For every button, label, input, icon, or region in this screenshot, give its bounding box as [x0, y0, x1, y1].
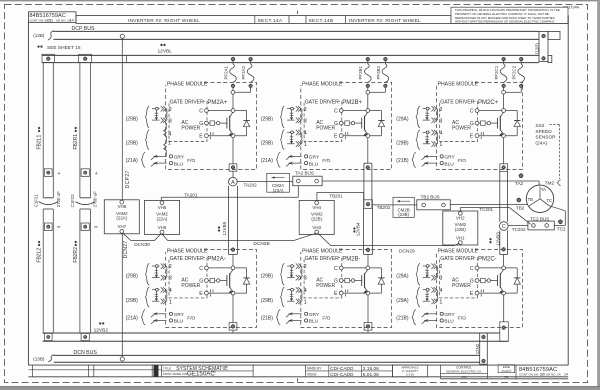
svg-text:GATE DRIVER: GATE DRIVER	[440, 256, 474, 262]
svg-text:12N2: 12N2	[475, 343, 480, 354]
svg-text:SS2: SS2	[535, 123, 544, 129]
svg-text:+: +	[95, 171, 98, 177]
svg-text:G: G	[334, 279, 338, 285]
wire PM2C- emitter down	[503, 295, 505, 322]
emitter rail PM2A+	[208, 135, 246, 137]
svg-text:VH8: VH8	[118, 204, 127, 209]
wire 12VB5 to PM2A- collector	[232, 255, 234, 267]
svg-text:CONT ON SH. 15: CONT ON SH. 15	[519, 372, 543, 376]
diode PM2A+	[246, 111, 248, 136]
svg-text:TA2: TA2	[515, 181, 524, 186]
svg-text:F/O: F/O	[322, 158, 330, 164]
svg-text:PM2A+: PM2A+	[207, 100, 227, 106]
svg-text:(29B): (29B)	[261, 274, 274, 280]
bolt box TB202	[364, 200, 373, 209]
wire TA201 to VAM2	[297, 186, 299, 198]
diode PM2C-	[516, 268, 518, 293]
ticks on emitter return PM2C+	[480, 132, 482, 135]
svg-text:INVERTER #2: RIGHT WHEEL: INVERTER #2: RIGHT WHEEL	[349, 18, 421, 24]
svg-text:(29A): (29A)	[396, 274, 409, 280]
svg-text:DCN2B: DCN2B	[253, 241, 269, 247]
bolt 12VB5	[231, 248, 235, 252]
wire TC201 from VAM2 to TC2 bus	[459, 208, 461, 211]
top gray scan bar	[0, 0, 600, 1]
connector pins 4 1 PM2B-	[287, 289, 295, 291]
svg-text:MADE BY: MADE BY	[307, 367, 322, 371]
gate driver box PM2C-	[440, 258, 478, 298]
bar 12N2	[480, 333, 488, 364]
fiber optic GRY PM2B-	[289, 313, 302, 315]
svg-text:(22A): (22A)	[157, 216, 168, 221]
current transducer CM2B (23B)	[393, 204, 417, 206]
svg-text:BLU: BLU	[444, 161, 454, 167]
svg-text:PF2C2: PF2C2	[512, 65, 517, 79]
svg-text:PF2B2: PF2B2	[376, 66, 381, 80]
svg-text:3: 3	[304, 276, 307, 282]
diode PM2A-	[246, 268, 248, 293]
svg-text:E: E	[470, 134, 474, 140]
svg-text:POWER: POWER	[316, 126, 335, 132]
capacitor C1F21 2700 uF	[43, 197, 53, 199]
svg-text:12VB3: 12VB3	[495, 232, 500, 246]
wire joining PF2A1 PF2A2	[232, 88, 234, 91]
bar phase B output	[363, 163, 365, 208]
collector rail PM2B+	[343, 110, 381, 112]
connector pins 4 1 PM2A+	[166, 109, 168, 121]
DCN bus	[54, 354, 480, 356]
svg-text:(29B): (29B)	[261, 298, 274, 304]
bolt box output PM2A-	[229, 323, 237, 331]
voltage module VAM2 (22A) VH6/VH5	[145, 200, 180, 234]
svg-text:4: 4	[439, 131, 442, 137]
svg-text:(21A): (21A)	[126, 158, 139, 164]
svg-text:PHASE MODULE: PHASE MODULE	[167, 249, 208, 255]
svg-text:VH4: VH4	[312, 205, 321, 210]
svg-text:VH2: VH2	[456, 215, 465, 220]
collector rail PM2B-	[343, 267, 381, 269]
title block outline	[28, 364, 568, 366]
svg-text:POWER: POWER	[452, 126, 471, 132]
bolt 12VB4	[366, 248, 370, 252]
collector rail PM2C+	[479, 110, 517, 112]
svg-text:VH3: VH3	[312, 225, 321, 230]
fiber optic GRY PM2A+	[154, 155, 167, 157]
svg-text:TB: TB	[528, 197, 534, 202]
svg-text:F/O: F/O	[458, 158, 466, 164]
emitter rail PM2A-	[208, 292, 246, 294]
svg-text:E: E	[334, 291, 338, 297]
motor TM2	[526, 185, 553, 212]
svg-text:+: +	[58, 171, 61, 177]
svg-text:DCP27: DCP27	[125, 170, 131, 188]
svg-text:F/O: F/O	[322, 316, 330, 322]
bolt box output PM2B-	[364, 323, 372, 331]
wire TA202 to CM2A	[237, 180, 267, 182]
svg-text:TM2: TM2	[545, 180, 555, 186]
fuse PF2A2	[249, 57, 253, 61]
node on DCN bus	[120, 357, 124, 361]
svg-text:C1F22: C1F22	[70, 194, 75, 208]
wire to ammeter TA202	[232, 171, 234, 177]
svg-text:FIRST MADE FOR: FIRST MADE FOR	[163, 372, 189, 376]
svg-text:GENERAL ELECTRIC CO.: GENERAL ELECTRIC CO.	[446, 370, 482, 374]
svg-text:C: C	[470, 109, 474, 115]
svg-text:F/O: F/O	[458, 316, 466, 322]
fiber optic BLU PM2A+	[154, 162, 167, 164]
node junction below fuses PF2B1	[366, 90, 370, 94]
wire phase C emitter down	[503, 138, 505, 164]
svg-text:TITLE: TITLE	[163, 367, 171, 371]
connector pins 4 1 PM2C-	[423, 289, 431, 291]
fold tick bottom center	[297, 378, 299, 381]
svg-text:SPEED: SPEED	[535, 129, 552, 135]
12VBL rail stub right of 12P bar	[548, 55, 552, 62]
bar phase C down to current sensor	[499, 171, 501, 221]
svg-text:DCN BUS: DCN BUS	[74, 350, 98, 356]
transistor IGBT PM2C+	[497, 118, 499, 129]
phase module PM2C- outline	[436, 250, 522, 328]
fiber optic GRY PM2B+	[289, 155, 302, 157]
svg-text:(23B): (23B)	[398, 212, 409, 217]
svg-text:1: 1	[304, 142, 307, 148]
phase module PM2C+ outline	[436, 82, 522, 169]
svg-text:PE: PE	[504, 375, 508, 379]
svg-text:15: 15	[541, 373, 545, 377]
svg-text:2.15.06: 2.15.06	[363, 366, 379, 372]
transistor IGBT PM2B+	[361, 118, 363, 129]
svg-text:GRY: GRY	[444, 312, 455, 318]
svg-text:PM2C+: PM2C+	[478, 100, 499, 106]
header strip	[76, 16, 568, 24]
fuse PF2B1	[366, 57, 370, 61]
svg-text:POWER: POWER	[181, 283, 200, 289]
bolt box top of FB2R1	[79, 54, 92, 62]
bolt output PM2B+	[366, 165, 370, 169]
svg-text:(22B): (22B)	[455, 227, 466, 232]
bus bar TA2 BUS	[293, 176, 322, 186]
voltage module VAM2 (22B) VH2/VH1	[443, 211, 478, 245]
current transducer CM2A (23A)	[267, 180, 293, 182]
emitter rail PM2C-	[479, 292, 517, 294]
svg-text:(21A): (21A)	[261, 158, 274, 164]
svg-text:VH5: VH5	[158, 225, 167, 230]
bus bar TC2 BUS	[528, 221, 554, 230]
svg-text:GE150AC: GE150AC	[187, 371, 215, 378]
svg-text:CGI: CGI	[461, 375, 467, 379]
svg-text:E: E	[334, 134, 338, 140]
svg-text:2: 2	[304, 264, 307, 270]
svg-text:GRY: GRY	[174, 312, 185, 318]
fiber optic GRY PM2C-	[424, 313, 437, 315]
diode PM2C+	[516, 111, 518, 136]
svg-text:E: E	[199, 134, 203, 140]
svg-text:ISSUE: ISSUE	[307, 372, 317, 376]
right frame line	[567, 16, 569, 366]
svg-text:PHASE MODULE: PHASE MODULE	[438, 82, 479, 88]
bar 12VB4 phase B	[363, 209, 365, 255]
emitter rail PM2C+	[479, 135, 517, 137]
label SEE SHEET 15	[37, 46, 39, 48]
fuse PF2B2	[383, 57, 387, 61]
svg-text:(2): (2)	[225, 365, 228, 369]
svg-text:VH1: VH1	[456, 235, 465, 240]
svg-text:2: 2	[169, 107, 172, 113]
svg-text:5.01.06: 5.01.06	[363, 372, 379, 378]
bolt box mid of FB2L2 with - polarity	[44, 223, 52, 231]
svg-text:G: G	[470, 279, 474, 285]
collector rail PM2A+	[208, 110, 246, 112]
DCN negative rail	[43, 332, 500, 334]
svg-text:G: G	[470, 121, 474, 127]
svg-text:5.3.06: 5.3.06	[406, 373, 414, 377]
svg-text:BLU: BLU	[444, 319, 454, 325]
svg-text:DCN27: DCN27	[123, 240, 129, 258]
fuse PF2C2	[519, 57, 523, 61]
svg-text:GATE DRIVER: GATE DRIVER	[305, 99, 339, 105]
fold tick top center	[297, 11, 299, 14]
wire joining PF2C1 PF2C2	[503, 88, 505, 91]
svg-text:3: 3	[304, 118, 307, 124]
svg-text:PHASE MODULE: PHASE MODULE	[302, 82, 343, 88]
node on DCP bus	[120, 34, 124, 38]
connector pins 4 1 PM2B+	[287, 131, 295, 133]
bolt box top of FB2L1	[42, 54, 55, 62]
DCP bus	[54, 30, 540, 32]
transistor IGBT PM2B-	[361, 275, 363, 286]
svg-text:1: 1	[168, 141, 171, 147]
control cell GENERAL ELECTRIC CO	[440, 365, 442, 379]
wire PM2A- emitter down	[232, 295, 234, 323]
svg-text:C: C	[470, 266, 474, 272]
title box 84B516759AC top-left	[28, 12, 76, 23]
svg-text:PF2C1: PF2C1	[494, 65, 499, 79]
svg-text:SEE SHEET 15: SEE SHEET 15	[47, 45, 81, 51]
svg-text:1: 1	[169, 299, 172, 305]
svg-text:(23A): (23A)	[273, 188, 284, 193]
svg-text:(21B): (21B)	[396, 158, 409, 164]
svg-text:14: 14	[564, 373, 568, 377]
ammeter TA202	[229, 177, 238, 186]
svg-text:SENSOR: SENSOR	[535, 135, 556, 141]
svg-text:2: 2	[439, 264, 442, 270]
svg-text:PM2C-: PM2C-	[478, 257, 497, 263]
svg-text:(13B): (13B)	[33, 33, 45, 38]
svg-text:TB201: TB201	[329, 193, 343, 198]
label 12VB2	[99, 322, 101, 324]
svg-text:4: 4	[304, 131, 307, 137]
svg-text:(29B): (29B)	[261, 116, 274, 122]
svg-text:PLANT: PLANT	[502, 369, 512, 373]
collector rail PM2C-	[479, 267, 517, 269]
svg-text:(29B): (29B)	[126, 298, 139, 304]
svg-text:(29A): (29A)	[396, 298, 409, 304]
capacitor C1F22 2700 uF	[80, 197, 91, 199]
gate driver box PM2B+	[304, 101, 342, 141]
bolt 12VB3	[502, 247, 506, 251]
svg-text:3: 3	[439, 276, 442, 282]
gate driver box PM2A+	[169, 101, 207, 141]
bolt box output PM2C+	[500, 164, 508, 172]
wire DCP27 vertical	[121, 38, 123, 200]
svg-text:C: C	[502, 224, 506, 230]
transistor IGBT PM2C-	[497, 275, 499, 286]
svg-text:(29A): (29A)	[396, 116, 409, 122]
gate resistor PM2C-	[479, 280, 481, 282]
bolt TB2	[517, 198, 522, 203]
wire TC2 bus to TC2 bolt	[554, 224, 565, 226]
svg-text:TB2 BUS: TB2 BUS	[421, 194, 440, 199]
fiber optic BLU PM2B+	[289, 162, 302, 164]
svg-text:12VB2: 12VB2	[94, 327, 109, 333]
svg-text:GRY: GRY	[309, 155, 320, 161]
svg-text:BLU: BLU	[174, 319, 184, 325]
svg-text:GATE DRIVER: GATE DRIVER	[170, 99, 204, 105]
gate resistor PM2A+	[208, 122, 210, 124]
wire 12VB4 to PM2B- collector	[367, 255, 369, 267]
bolt box output PM2A+	[229, 164, 237, 171]
speed sensor pointer dashed	[550, 124, 560, 126]
svg-text:A: A	[231, 180, 235, 186]
wire TB202 to CM2B	[372, 204, 393, 206]
bolt box mid of FB2L1 with + polarity	[44, 169, 52, 177]
svg-text:PM2B-: PM2B-	[342, 257, 360, 263]
svg-text:C1F21: C1F21	[34, 194, 39, 208]
title cell SYSTEM SCHEMATIC	[252, 365, 254, 377]
wire phase B emitter down	[367, 138, 369, 164]
made-by cell	[305, 365, 307, 377]
svg-text:G: G	[199, 279, 203, 285]
svg-text:TC201: TC201	[479, 207, 493, 212]
gate resistor PM2A-	[208, 280, 210, 282]
collector rail PM2A-	[208, 267, 246, 269]
svg-text:GATE DRIVER: GATE DRIVER	[440, 99, 474, 105]
svg-text:F/O: F/O	[187, 316, 195, 322]
bolt box bottom of FB2L2	[44, 333, 52, 340]
svg-text:FB2L1: FB2L1	[37, 135, 43, 150]
gate driver box PM2A-	[169, 258, 207, 298]
svg-text:PM2B+: PM2B+	[342, 100, 362, 106]
svg-text:(29B): (29B)	[126, 116, 139, 122]
svg-text:TA202: TA202	[244, 182, 258, 187]
bus bar FB2L2	[42, 209, 44, 333]
svg-text:4: 4	[169, 288, 172, 294]
wire PM2B- emitter down	[367, 295, 369, 323]
svg-text:DCN29: DCN29	[399, 249, 415, 255]
svg-text:GRY: GRY	[174, 155, 185, 161]
svg-text:(21B): (21B)	[261, 316, 274, 322]
svg-text:SECT.14A: SECT.14A	[258, 18, 283, 24]
phase module PM2A- outline	[166, 250, 257, 328]
node junction below fuses PF2A1	[231, 90, 235, 94]
svg-text:F/O: F/O	[187, 158, 195, 164]
svg-text:DCN30: DCN30	[134, 242, 150, 248]
svg-text:1: 1	[439, 142, 442, 148]
ticks on emitter return PM2B-	[344, 290, 346, 293]
ticks on emitter return PM2A+	[210, 132, 212, 135]
net DCN30 / DCN2B / DCN29 wire	[123, 233, 459, 245]
svg-text:WITHOUT WRITTEN PERMISSION OF: WITHOUT WRITTEN PERMISSION OF GENERAL EL…	[455, 20, 555, 24]
wire TB2 to motor	[450, 203, 527, 205]
bolt TA2	[519, 173, 524, 178]
svg-text:VH7: VH7	[118, 224, 127, 229]
gate driver box PM2B-	[304, 258, 342, 298]
voltage module VAM2 (22A) VH8/VH7	[104, 200, 139, 234]
DCP bus stub right of 12P bar	[548, 31, 560, 39]
svg-text:2: 2	[304, 107, 307, 113]
ticks on emitter return PM2C-	[480, 290, 482, 293]
svg-text:PF2B1: PF2B1	[358, 66, 363, 80]
svg-text:DCP BUS: DCP BUS	[72, 26, 96, 32]
right page-edge gray band	[597, 0, 600, 390]
approvals cell	[393, 365, 428, 377]
svg-text:2: 2	[169, 264, 172, 270]
diode PM2B+	[380, 111, 382, 136]
svg-text:E: E	[199, 291, 203, 297]
svg-text:FB2R2: FB2R2	[73, 247, 79, 263]
phase module PM2A+ outline	[166, 82, 257, 169]
bolt box mid of FB2R2 with - polarity	[81, 223, 89, 231]
svg-text:1: 1	[304, 299, 307, 305]
svg-text:3: 3	[169, 118, 172, 124]
gate resistor PM2B-	[343, 280, 345, 282]
bus bar FB2L1	[42, 63, 44, 198]
svg-text:G: G	[334, 121, 338, 127]
svg-text:BLU: BLU	[309, 319, 319, 325]
svg-text:GRY: GRY	[309, 312, 320, 318]
12P bus bar right end	[539, 31, 548, 61]
header cell divider lines	[254, 16, 256, 24]
svg-text:GRY: GRY	[444, 155, 455, 161]
svg-text:4: 4	[439, 288, 442, 294]
transistor IGBT PM2A-	[226, 275, 228, 286]
wire phase A emitter down	[232, 138, 234, 164]
svg-text:SH NO. 14: SH NO. 14	[546, 372, 561, 376]
bus bar FB2R2	[79, 209, 81, 333]
fuse PF2A1	[231, 57, 235, 61]
svg-text:(21B): (21B)	[396, 316, 409, 322]
svg-text:TC: TC	[546, 198, 552, 203]
svg-text:(29B): (29B)	[396, 141, 409, 147]
svg-text:PF2A2: PF2A2	[241, 66, 246, 80]
svg-text:PHASE MODULE: PHASE MODULE	[438, 249, 479, 255]
svg-text:12VB4: 12VB4	[355, 222, 360, 236]
svg-text:TC2: TC2	[557, 227, 566, 232]
left frame line	[27, 23, 29, 366]
revision strip	[154, 365, 159, 377]
gate resistor PM2C+	[479, 122, 481, 124]
gate driver box PM2C+	[440, 101, 478, 141]
wire joining PF2B1 PF2B2	[367, 88, 369, 91]
fiber optic BLU PM2A-	[154, 320, 167, 322]
transistor IGBT PM2A+	[226, 118, 228, 129]
bus bar TB2 BUS	[417, 200, 451, 210]
connector pins 2 3 PM2B-	[287, 265, 295, 267]
svg-text:PF2A1: PF2A1	[223, 66, 228, 80]
connector pins 2 3 PM2A+	[152, 108, 160, 110]
proprietary notice box	[451, 7, 568, 23]
svg-text:E: E	[470, 291, 474, 297]
fiber optic BLU PM2C+	[424, 162, 437, 164]
svg-text:FB2L2: FB2L2	[37, 248, 43, 263]
erie plant cell	[515, 365, 517, 379]
svg-text:2700 uF: 2700 uF	[56, 191, 61, 207]
svg-text:4: 4	[168, 132, 171, 138]
svg-text:(22A): (22A)	[116, 216, 127, 221]
wire TB201 to VAM2	[363, 192, 365, 199]
bolt box output PM2C-	[500, 322, 509, 342]
svg-text:(29B): (29B)	[126, 274, 139, 280]
DCP bus continuation squiggle (13B)	[48, 31, 54, 40]
